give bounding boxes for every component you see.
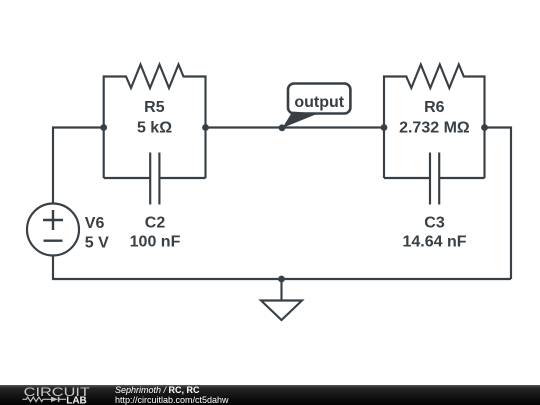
node ground junction [278, 276, 285, 283]
resistor R5 [104, 65, 206, 179]
svg-text:output: output [294, 94, 344, 111]
node B (box1 right) [202, 124, 209, 131]
svg-text:2.732 MΩ: 2.732 MΩ [399, 120, 470, 137]
V6 plus sign [43, 210, 63, 230]
voltage source V6 [27, 204, 79, 256]
logo resistor-diode line [23, 397, 67, 402]
output callout box [288, 84, 350, 114]
svg-text:R6: R6 [424, 99, 445, 116]
wire: source top vertical [53, 128, 104, 204]
svg-text:LAB: LAB [66, 395, 86, 405]
svg-text:14.64 nF: 14.64 nF [402, 234, 466, 251]
svg-text:C3: C3 [424, 215, 445, 232]
resistor R6 [384, 65, 485, 179]
wire: right side from box2 to bottom [485, 128, 512, 280]
V6 minus sign [44, 239, 63, 241]
capacitor C3 [384, 153, 485, 205]
svg-text:5 kΩ: 5 kΩ [137, 120, 172, 137]
capacitor C2 [104, 153, 206, 205]
node D (box2 right) [481, 124, 488, 131]
svg-text:R5: R5 [144, 99, 165, 116]
wire: main rail between boxes [206, 126, 385, 128]
node A (box1 left) [100, 124, 107, 131]
output callout tail [282, 112, 318, 129]
svg-text:C2: C2 [145, 215, 166, 232]
svg-text:V6: V6 [85, 215, 105, 232]
wire: bottom rail [53, 256, 511, 280]
node output [279, 124, 286, 131]
svg-text:5 V: 5 V [85, 235, 109, 252]
svg-text:100 nF: 100 nF [130, 234, 181, 251]
ground [261, 279, 302, 320]
footer bar [0, 385, 540, 405]
node C (box2 left) [381, 124, 388, 131]
logo diode [51, 396, 58, 401]
